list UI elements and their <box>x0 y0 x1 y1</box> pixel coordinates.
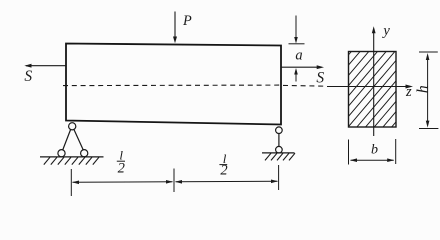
dimension b <box>349 139 396 165</box>
svg-text:2: 2 <box>220 163 227 179</box>
label z <box>405 84 412 100</box>
load P arrow <box>173 12 177 44</box>
label y <box>381 23 390 39</box>
svg-text:y: y <box>381 23 390 39</box>
label h <box>415 85 432 93</box>
label l/2 right <box>219 151 227 179</box>
svg-text:b: b <box>371 143 378 158</box>
label P <box>182 13 192 29</box>
span dimension extension lines <box>71 165 278 196</box>
svg-text:S: S <box>316 70 324 87</box>
label l/2 left <box>117 148 125 177</box>
dimension l/2 (left segment) <box>72 180 173 184</box>
dimension h <box>419 52 438 129</box>
force S left <box>24 64 66 68</box>
svg-text:S: S <box>24 68 32 85</box>
cross-section outline <box>349 52 397 128</box>
roller support (right) <box>276 127 283 153</box>
pin support (left) <box>58 123 88 157</box>
svg-text:a: a <box>295 47 302 63</box>
label S right <box>316 70 324 87</box>
svg-text:P: P <box>182 13 192 29</box>
cross-section hatching <box>286 51 440 129</box>
label S left <box>24 68 32 85</box>
ground (left) <box>40 157 104 165</box>
svg-text:h: h <box>415 85 432 93</box>
label b <box>371 143 378 158</box>
beam <box>66 44 281 125</box>
centroid axis (dashed) <box>63 84 281 87</box>
dimension l/2 (right segment) <box>175 180 278 184</box>
dimension a <box>289 16 305 82</box>
label a <box>295 47 302 63</box>
force S right <box>281 65 324 69</box>
z axis <box>283 85 413 89</box>
svg-text:2: 2 <box>118 161 125 177</box>
y axis <box>372 26 376 136</box>
ground (right) <box>262 153 295 161</box>
svg-text:z: z <box>405 84 412 100</box>
